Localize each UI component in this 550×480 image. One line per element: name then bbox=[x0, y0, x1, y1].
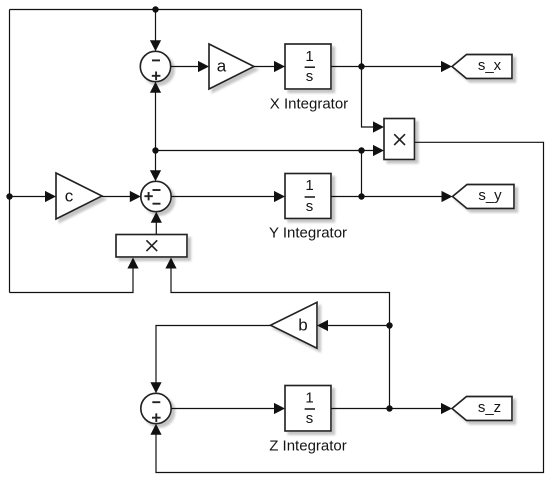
sum block Sum_Z bbox=[141, 393, 171, 423]
wire: y line horizontal into product P1 lower input bbox=[156, 145, 385, 156]
wire: z run up from Z output line into product P2 right input bbox=[165, 258, 389, 409]
label: X Integrator bbox=[270, 96, 348, 113]
wire: drop into Sum_X minus input bbox=[150, 10, 161, 52]
product P2 (multiply, wide) bbox=[116, 235, 187, 258]
integrator U2 (Y) block bbox=[285, 174, 331, 219]
gain b value label bbox=[298, 316, 307, 335]
wire: Sum_Z output to Z integrator bbox=[171, 403, 285, 414]
gain c bbox=[56, 173, 102, 219]
wire: Sum_X output to gain a bbox=[171, 61, 209, 72]
svg-text:1: 1 bbox=[305, 48, 313, 65]
product P1 multiply sign bbox=[394, 134, 405, 145]
wire: x branch down into product P1 upper input bbox=[362, 10, 385, 133]
svg-text:s_x: s_x bbox=[478, 57, 502, 74]
label: Z Integrator bbox=[269, 438, 347, 455]
node: junction y line left bbox=[152, 147, 158, 153]
svg-text:1: 1 bbox=[305, 389, 313, 406]
svg-text:s: s bbox=[306, 68, 314, 85]
svg-text:X Integrator: X Integrator bbox=[270, 96, 348, 113]
node: junction on left vertical at gain c input bbox=[6, 193, 12, 199]
integrator U3 (Z) block bbox=[285, 386, 331, 432]
wire: gain b output to Sum_Z top input bbox=[150, 326, 270, 394]
svg-text:c: c bbox=[65, 187, 74, 206]
wire: y line up into Sum_X plus input bbox=[150, 82, 161, 151]
svg-text:1: 1 bbox=[305, 177, 313, 194]
outport s_x label bbox=[478, 57, 502, 74]
product P2 multiply sign bbox=[146, 240, 157, 251]
wire: P1 output feedback loop to Sum_Z plus input bbox=[150, 142, 543, 472]
wire: X integrator output to outport s_x bbox=[331, 61, 452, 72]
wire: gain c output to Sum_Y bbox=[102, 191, 141, 202]
wire: y line down into Sum_Y top input bbox=[150, 151, 161, 182]
outport s_z bbox=[452, 397, 512, 421]
svg-text:s_y: s_y bbox=[478, 187, 502, 204]
node: junction on top line above Sum_X bbox=[152, 6, 158, 12]
wire: P2 output up into Sum_Y bottom input bbox=[151, 212, 162, 235]
svg-text:s_z: s_z bbox=[478, 399, 501, 416]
gain a bbox=[209, 44, 254, 89]
outport s_y label bbox=[478, 187, 502, 204]
svg-text:Y Integrator: Y Integrator bbox=[269, 225, 347, 242]
wire: bottom-left run into product P2 left input bbox=[10, 258, 139, 293]
gain b (points left) bbox=[271, 302, 318, 348]
node: junction y line right bbox=[358, 147, 364, 153]
integrator U1 (X) block bbox=[285, 44, 331, 89]
svg-text:b: b bbox=[298, 316, 307, 335]
svg-text:s: s bbox=[306, 410, 314, 427]
sum block Sum_X bbox=[140, 51, 170, 81]
node: junction on y output line bbox=[358, 193, 364, 199]
outport s_z label bbox=[478, 399, 501, 416]
wire: gain a to X integrator bbox=[254, 61, 285, 72]
svg-text:Z Integrator: Z Integrator bbox=[269, 438, 347, 455]
label: Y Integrator bbox=[269, 225, 347, 242]
wire: y feedback vertical from Y integrator output bbox=[361, 151, 363, 197]
wire: into gain b (leftward) bbox=[317, 320, 390, 331]
wire: into gain c bbox=[10, 191, 57, 202]
wire: left feedback vertical bbox=[9, 10, 11, 293]
wire: Sum_Y output to Y integrator bbox=[171, 191, 285, 202]
product P1 (multiply) bbox=[384, 119, 415, 160]
outport s_y bbox=[453, 185, 515, 209]
wire: Y integrator output to outport s_y bbox=[331, 191, 453, 202]
node: junction z line at gain b input bbox=[386, 322, 392, 328]
svg-text:s: s bbox=[306, 198, 314, 215]
sum block Sum_Y bbox=[141, 181, 171, 211]
gain c value label bbox=[65, 187, 74, 206]
wire: top feedback line (x signal) bbox=[10, 9, 362, 11]
integrator U1 1/s value bbox=[305, 48, 315, 85]
outport s_x bbox=[452, 55, 512, 79]
svg-text:a: a bbox=[217, 57, 227, 76]
node: junction on x output line bbox=[358, 63, 364, 69]
gain a value label bbox=[217, 57, 227, 76]
integrator U3 1/s value bbox=[305, 389, 315, 427]
wire: Z integrator output to outport s_z bbox=[331, 403, 452, 414]
integrator U2 1/s value bbox=[305, 177, 315, 215]
node: junction on z output line bbox=[386, 405, 392, 411]
